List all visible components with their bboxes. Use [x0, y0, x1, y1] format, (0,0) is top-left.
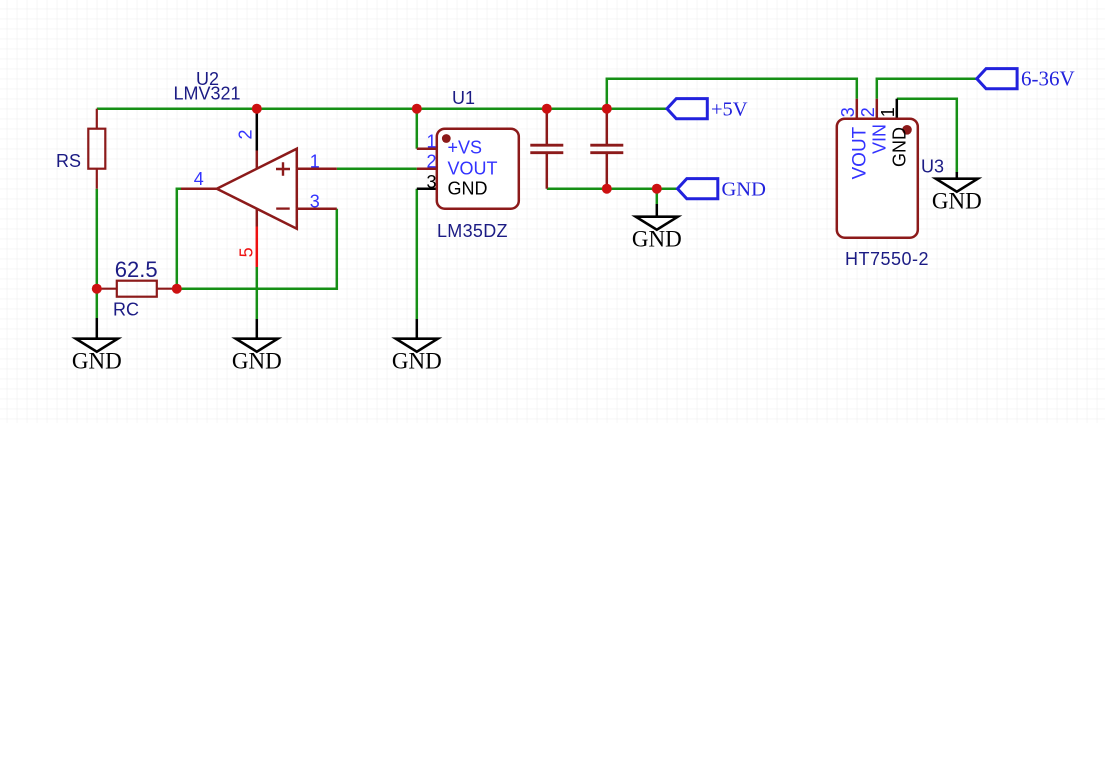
svg-text:GND: GND — [72, 349, 122, 374]
IC U3 pin1 indicator dot — [902, 125, 912, 135]
svg-text:LM35DZ: LM35DZ — [437, 221, 508, 241]
svg-text:+5V: +5V — [711, 98, 748, 120]
svg-text:1: 1 — [310, 152, 320, 172]
svg-text:1: 1 — [878, 107, 898, 117]
op-amp U2 pins — [181, 151, 337, 227]
svg-text:4: 4 — [194, 169, 204, 189]
op-amp minus sign — [276, 207, 290, 209]
svg-text:5: 5 — [237, 247, 257, 257]
resistor RS — [88, 109, 105, 189]
svg-text:GND: GND — [889, 127, 909, 167]
wire feedback bottom run — [177, 209, 337, 289]
svg-text:RC: RC — [113, 300, 139, 320]
wire 6-36V to VIN — [877, 79, 977, 99]
IC U3 pins — [856, 99, 859, 119]
ground symbol 1 — [76, 339, 118, 352]
resistor RC — [97, 281, 177, 297]
svg-text:+VS: +VS — [448, 138, 483, 158]
junction at C2 top on +5V rail — [602, 104, 612, 114]
junction at U1 +VS on +5V rail — [412, 104, 422, 114]
svg-text:U1: U1 — [452, 88, 475, 108]
svg-text:LMV321: LMV321 — [174, 84, 241, 104]
wire gnd1 black tail — [96, 318, 99, 339]
wire op pin4 drop — [177, 189, 183, 289]
svg-text:GND: GND — [448, 179, 488, 199]
svg-text:GND: GND — [932, 189, 982, 214]
junction RC/feedback node — [172, 284, 182, 294]
svg-text:GND: GND — [232, 349, 282, 374]
svg-text:U3: U3 — [921, 157, 944, 177]
svg-text:2: 2 — [858, 107, 878, 117]
wire gnd2 black stub — [256, 319, 259, 339]
wire op pin5 green to ground — [256, 267, 259, 319]
IC U3 body HT7550-2 — [837, 119, 918, 238]
wire top VOUT run — [607, 79, 857, 109]
junction at op-amp pin2 on +5V rail — [252, 104, 262, 114]
net flag GND — [678, 179, 718, 199]
wire gnd1 black stub — [96, 289, 99, 318]
svg-text:2: 2 — [426, 151, 436, 171]
svg-text:GND: GND — [722, 178, 766, 200]
svg-text:6-36V: 6-36V — [1021, 66, 1075, 90]
wire U3 pin1 to ground — [897, 99, 957, 173]
junction at C1 top on +5V rail — [542, 104, 552, 114]
wire gnd3 black stub — [416, 319, 419, 339]
junction RS/RC node — [92, 284, 102, 294]
wire cap bottom rail — [547, 187, 678, 190]
ground symbol 4 — [636, 217, 678, 230]
wire op pin5 red — [256, 227, 259, 268]
IC U1 body LM35DZ — [437, 129, 519, 209]
net flag 6-36V — [977, 69, 1017, 89]
wire op pin1 to U1 — [337, 167, 417, 170]
op-amp U2 triangle — [217, 149, 297, 229]
junction at GND flag tap — [652, 184, 662, 194]
wire U3 pin1 black stub — [896, 99, 899, 119]
svg-text:VOUT: VOUT — [849, 126, 870, 179]
IC U1 pin1 indicator dot — [442, 134, 451, 143]
ground symbol 5 — [936, 179, 978, 192]
svg-text:3: 3 — [426, 172, 436, 192]
wire RS bottom to RC junction — [96, 189, 99, 289]
net flag +5V — [667, 99, 707, 119]
svg-text:VOUT: VOUT — [448, 159, 498, 179]
wire U3 gnd black drop — [956, 172, 959, 179]
svg-text:3: 3 — [310, 192, 320, 212]
svg-text:GND: GND — [392, 349, 442, 374]
wire op pin2 black — [256, 109, 259, 151]
svg-text:62.5: 62.5 — [115, 257, 158, 282]
wire gnd4 stub — [656, 189, 659, 204]
wire gnd4 black tail — [656, 204, 659, 217]
wire U1 pin1 up to rail — [416, 109, 419, 149]
capacitor C1 — [530, 109, 563, 189]
svg-text:3: 3 — [838, 107, 858, 117]
svg-text:2: 2 — [236, 129, 256, 139]
svg-text:VIN: VIN — [869, 124, 889, 154]
ground symbol 3 — [396, 339, 438, 352]
svg-text:GND: GND — [632, 227, 682, 252]
wire U1 pin3 to ground — [416, 189, 419, 319]
capacitor C2 — [590, 109, 623, 189]
junction at C2 bottom on GND rail — [602, 184, 612, 194]
op-amp plus sign — [276, 162, 290, 176]
svg-text:RS: RS — [56, 151, 81, 171]
IC U1 pins — [417, 147, 437, 150]
wire +5V rail — [97, 107, 667, 110]
svg-text:1: 1 — [426, 131, 436, 151]
svg-text:HT7550-2: HT7550-2 — [845, 249, 929, 269]
ground symbol 2 — [236, 339, 278, 352]
